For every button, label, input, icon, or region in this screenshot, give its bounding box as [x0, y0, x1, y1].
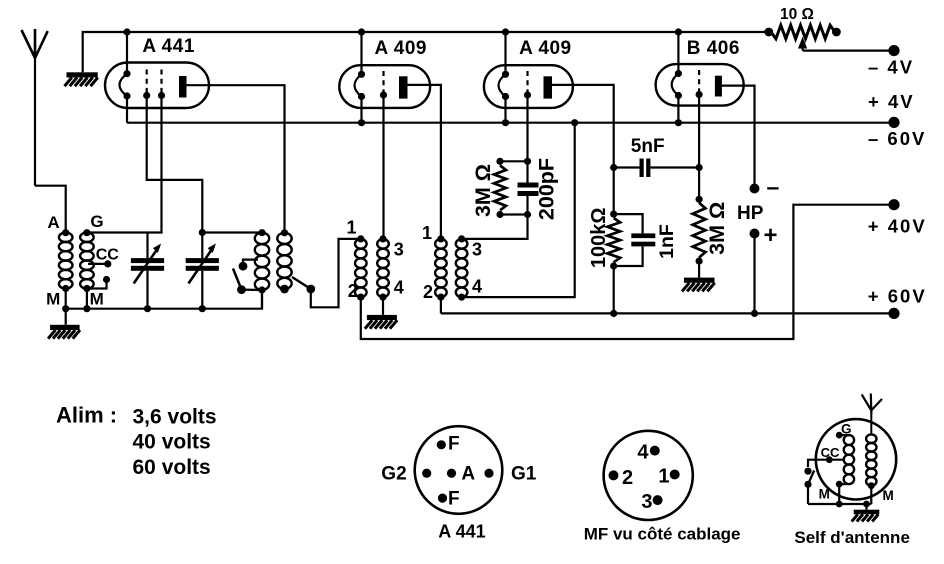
label pin A: [461, 464, 475, 485]
junction bus / V3 filament: [502, 119, 509, 126]
junction top bus / V4 filament: [675, 28, 682, 35]
wire MF2 pin2 to +60V wire: [440, 297, 442, 313]
tube V3 filament: [499, 71, 510, 100]
junction bus / V2 filament: [358, 119, 365, 126]
svg-text:3,6 volts: 3,6 volts: [133, 406, 217, 429]
label C5 5nF: [631, 136, 665, 157]
capacitor C4 1nF loop: [614, 214, 656, 266]
label 3,6 volts: [133, 406, 217, 429]
label G (grid winding): [90, 212, 103, 231]
wire V3 grid to grid leak: [526, 95, 528, 161]
wire L2 bottom to ground bus: [86, 289, 88, 309]
label R2 3MΩ: [471, 164, 495, 217]
svg-text:G2: G2: [381, 464, 406, 485]
junction bus / V4 filament: [675, 119, 682, 126]
svg-text:F: F: [448, 434, 460, 455]
svg-text:2: 2: [622, 467, 633, 489]
wire V1 grid2 to L2 top: [87, 96, 162, 233]
label MF vu côté cablage: [584, 525, 741, 544]
label +4V: [868, 91, 915, 112]
svg-text:CC: CC: [821, 445, 840, 460]
tube V4 filament wire: [677, 32, 679, 123]
terminal -4V: [888, 45, 899, 56]
junction 5nF right: [696, 164, 703, 171]
wire C2 top to L3 top: [202, 231, 262, 233]
ground G2 (input section): [48, 309, 80, 339]
junction bus / MF2 pin4 riser: [571, 119, 578, 126]
label tube V2 A 409: [375, 38, 428, 59]
label self G: [841, 422, 852, 437]
tube V4 anode plate: [715, 76, 722, 97]
svg-text:F: F: [448, 489, 460, 510]
tube V1 filament: [120, 70, 131, 100]
label C4 1nF: [656, 224, 678, 259]
svg-text:M: M: [46, 290, 60, 309]
wire L1 bottom to ground bus: [65, 289, 67, 309]
junction ground bus / L2: [83, 305, 90, 312]
svg-text:Self d'antenne: Self d'antenne: [794, 528, 910, 547]
label +40V: [868, 216, 927, 237]
label MF1 pin 2: [348, 281, 358, 301]
wire grid leak top: [500, 158, 531, 165]
svg-text:+: +: [764, 222, 778, 249]
label MF1 pin 1: [346, 217, 356, 237]
junction top bus / V1 filament: [123, 28, 130, 35]
tube V3 anode plate: [544, 76, 553, 98]
socket A441 pin G1: [484, 469, 493, 478]
label socket A 441: [438, 522, 485, 542]
svg-text:2: 2: [423, 282, 433, 302]
junction self bus left: [836, 501, 843, 508]
socket A441 pin F bottom: [438, 494, 447, 503]
label pin F top: [448, 434, 460, 455]
wire ground bus: [66, 290, 262, 309]
wire self left coil bottom: [836, 481, 849, 504]
svg-text:A 441: A 441: [438, 522, 485, 542]
tube V4 filament: [672, 70, 682, 99]
wire V1 anode to L4 top: [186, 85, 284, 233]
terminal HP minus: [750, 184, 760, 194]
svg-text:M: M: [90, 290, 104, 309]
self coil left (secondary): [844, 435, 854, 484]
label HP plus sign: [764, 222, 778, 249]
junction top bus / V3 filament: [502, 28, 509, 35]
terminal HP plus: [750, 229, 760, 239]
svg-text:5nF: 5nF: [631, 136, 665, 157]
junction +60V / 100k: [610, 310, 617, 317]
terminal +60V: [888, 308, 899, 319]
switch S2: [280, 277, 315, 293]
svg-text:40 volts: 40 volts: [133, 431, 211, 454]
wire 100k bottom to +60V: [613, 266, 615, 313]
label A (antenna winding): [47, 213, 59, 232]
svg-text:1: 1: [658, 466, 669, 488]
socket A441 outline: [415, 426, 503, 514]
label -60V: [868, 128, 926, 149]
wire wiper to -4V terminal: [803, 49, 894, 51]
capacitor C3 200pF: [518, 161, 539, 214]
label pin G1: [511, 464, 537, 485]
svg-text:A: A: [47, 213, 59, 232]
svg-text:G1: G1: [511, 464, 537, 485]
label tube V3 A 409: [519, 38, 572, 59]
tube V3 filament wire: [504, 32, 506, 123]
wire MF1 pin2 to +40V terminal: [361, 205, 894, 339]
socket MF pin 3: [653, 495, 663, 505]
tube V2 anode plate: [399, 76, 408, 98]
svg-text:+ 4V: + 4V: [868, 91, 915, 112]
svg-text:– 60V: – 60V: [868, 128, 926, 149]
socket MF pin 1: [670, 470, 680, 480]
svg-text:+ 60V: + 60V: [868, 285, 927, 306]
rheostat wiper arrow: [798, 37, 807, 51]
label MF pin 1: [658, 466, 669, 488]
self switch S3: [804, 468, 814, 488]
wire top filament bus (-4V): [83, 32, 769, 72]
wire self right coil to bus: [870, 486, 872, 504]
label Alim: [56, 403, 117, 428]
wire V4 grid down: [698, 95, 700, 200]
self terminal G: [836, 432, 843, 439]
ground G1 (top left): [0, 0, 98, 86]
tube V2 filament wire: [360, 32, 362, 123]
socket MF pin 2: [609, 470, 619, 480]
wire L3 bottom to ground bus: [261, 290, 263, 309]
label M (right): [90, 290, 104, 309]
wire V1 grid1 to C2: [147, 96, 203, 233]
wire CC tap: [88, 260, 111, 267]
tube V1 A441 envelope: [105, 63, 209, 109]
coil MF2 primary: [435, 235, 447, 300]
svg-text:3: 3: [394, 240, 404, 260]
tube V1 filament wire: [126, 32, 128, 123]
svg-text:A 441: A 441: [142, 36, 195, 57]
resistor R2 3MΩ: [494, 158, 506, 218]
label 60 volts: [133, 456, 211, 479]
svg-text:A 409: A 409: [519, 38, 572, 59]
coil L2 grid secondary: [80, 229, 94, 292]
socket MF pin 4: [650, 446, 660, 456]
wire S1 to L3 bottom: [242, 289, 263, 292]
svg-text:G: G: [90, 212, 103, 231]
svg-text:2: 2: [348, 281, 358, 301]
label MF2 pin 1: [422, 223, 432, 243]
terminal +40V: [888, 199, 899, 210]
label MF pin 3: [641, 491, 652, 513]
label M (left): [46, 290, 60, 309]
tube V4 grid (dashed): [696, 70, 703, 98]
wire V4 anode to HP-: [722, 86, 755, 189]
wire antenna to A coil: [35, 186, 66, 233]
wire V3 anode to 100k: [552, 85, 614, 214]
resistor R4 3MΩ: [693, 196, 706, 265]
socket A441 pin A: [447, 469, 456, 478]
label 40 volts: [133, 431, 211, 454]
wire self CC tap: [808, 456, 845, 467]
junction ground bus / C1: [144, 305, 151, 312]
coil MF1 secondary: [377, 235, 389, 300]
svg-text:+ 40V: + 40V: [868, 216, 927, 237]
label self CC: [821, 445, 840, 460]
label tube V4 B 406: [687, 38, 740, 59]
svg-text:–: –: [767, 174, 780, 200]
tube V3 A409 envelope: [484, 65, 573, 108]
junction ground bus / C2: [199, 305, 206, 312]
self coil right (antenna): [866, 434, 876, 489]
ground G5 (self): [852, 504, 880, 522]
svg-text:4: 4: [394, 277, 404, 297]
label R4 3MΩ: [705, 202, 729, 255]
label MF2 pin 2: [423, 282, 433, 302]
svg-text:A 409: A 409: [375, 38, 428, 59]
label tube V1 A 441: [142, 36, 195, 57]
label MF pin 2: [622, 467, 633, 489]
wire self G stub: [839, 434, 849, 436]
antenna: [22, 29, 48, 186]
wire self switch to bus: [807, 484, 809, 504]
wire MF2 pin4 to filament bus: [462, 123, 575, 297]
label Self d'antenne: [794, 528, 910, 547]
label MF2 pin 3: [472, 240, 482, 260]
label CC tap: [96, 246, 120, 263]
label pin F bottom: [448, 489, 460, 510]
svg-text:10 Ω: 10 Ω: [780, 6, 814, 23]
wire MF2 pin3 to grid leak: [462, 215, 528, 239]
wire V2 grid to MF1 pin 3: [382, 95, 384, 239]
switch S1: [233, 262, 247, 294]
socket MF outline: [604, 431, 693, 520]
junction ground bus / L1: [62, 305, 69, 312]
wire grid leak bottom: [500, 211, 531, 218]
wire self bus: [808, 503, 871, 505]
label C3 200pF: [535, 158, 559, 220]
svg-text:1nF: 1nF: [656, 224, 678, 259]
svg-text:3: 3: [641, 491, 652, 513]
terminal +4V -60V: [888, 117, 899, 128]
resistor R3 100kΩ: [607, 211, 620, 270]
socket A441 pin F top: [437, 440, 446, 449]
wire MF1 pin 4 to ground: [382, 297, 384, 315]
tube V4 B406 envelope: [656, 64, 744, 106]
tube V1 anode plate: [179, 76, 187, 98]
svg-text:1: 1: [422, 223, 432, 243]
coil MF2 secondary: [456, 235, 468, 300]
svg-text:HP: HP: [737, 203, 764, 224]
svg-text:100kΩ: 100kΩ: [588, 208, 610, 269]
wire +4V filament bus: [127, 122, 894, 124]
tube V2 filament: [355, 71, 366, 100]
ground G3 (MF1): [0, 0, 397, 329]
junction C2 top: [199, 229, 206, 236]
junction self bus right: [863, 501, 870, 508]
label R1 value 10 Ω: [780, 6, 814, 23]
svg-text:Alim :: Alim :: [56, 403, 117, 428]
rheostat R1 10Ω: [764, 25, 840, 39]
wire +60V line: [441, 312, 894, 314]
coil L1 antenna primary: [59, 229, 73, 292]
socket A441 pin G2: [422, 469, 431, 478]
wire M tap: [87, 276, 110, 289]
ground G4 (grid R4): [682, 261, 715, 291]
svg-text:3M Ω: 3M Ω: [471, 164, 495, 217]
svg-text:A: A: [461, 464, 475, 485]
label MF pin 4: [637, 441, 649, 463]
svg-text:60 volts: 60 volts: [133, 456, 211, 479]
tube V3 grid (dashed): [524, 71, 531, 99]
label R3 100kΩ: [588, 208, 610, 269]
svg-text:4: 4: [637, 441, 649, 463]
wire HP+ to +60V: [753, 234, 755, 314]
svg-text:B 406: B 406: [687, 38, 740, 59]
tube V1 grid 2 (dashed): [158, 70, 165, 100]
tube V1 grid 1 (dashed): [143, 70, 150, 100]
label MF1 pin 4: [394, 277, 404, 297]
label MF2 pin 4: [472, 277, 482, 297]
svg-text:3M Ω: 3M Ω: [705, 202, 729, 255]
tube V2 A409 envelope: [339, 65, 430, 108]
svg-text:3: 3: [472, 240, 482, 260]
label MF1 pin 3: [394, 240, 404, 260]
capacitor C5 5nF: [614, 159, 699, 178]
junction 5nF left: [610, 164, 617, 171]
svg-text:MF vu côté cablage: MF vu côté cablage: [584, 525, 741, 544]
svg-text:200pF: 200pF: [535, 158, 559, 220]
wire V2 anode to MF2 pin 1: [408, 85, 441, 239]
wire L3 tap to switch S1: [243, 260, 258, 263]
junction +60V / HP+: [751, 310, 758, 317]
variable capacitor C2: [186, 233, 219, 309]
label HP minus sign: [767, 174, 780, 200]
variable capacitor C1: [131, 233, 164, 309]
label pin G2: [381, 464, 406, 485]
svg-text:M: M: [883, 488, 894, 503]
svg-text:M: M: [819, 487, 830, 502]
junction top bus / V2 filament: [358, 28, 365, 35]
label HP: [737, 203, 764, 224]
label self M left: [819, 487, 830, 502]
wire S2 to MF1 pin 1: [311, 239, 361, 307]
tube V2 grid (dashed): [380, 71, 387, 99]
svg-text:1: 1: [346, 217, 356, 237]
svg-text:4: 4: [472, 277, 482, 297]
label self M right: [883, 488, 894, 503]
svg-text:– 4V: – 4V: [868, 57, 914, 78]
label -4V: [868, 57, 914, 78]
self antenna coil outline: [816, 419, 896, 499]
coil MF1 primary: [355, 235, 367, 300]
self antenna symbol: [862, 394, 882, 435]
coil L4 oscillator winding: [277, 229, 291, 292]
label +60V: [868, 285, 927, 306]
coil L3 coupling winding: [255, 229, 269, 294]
